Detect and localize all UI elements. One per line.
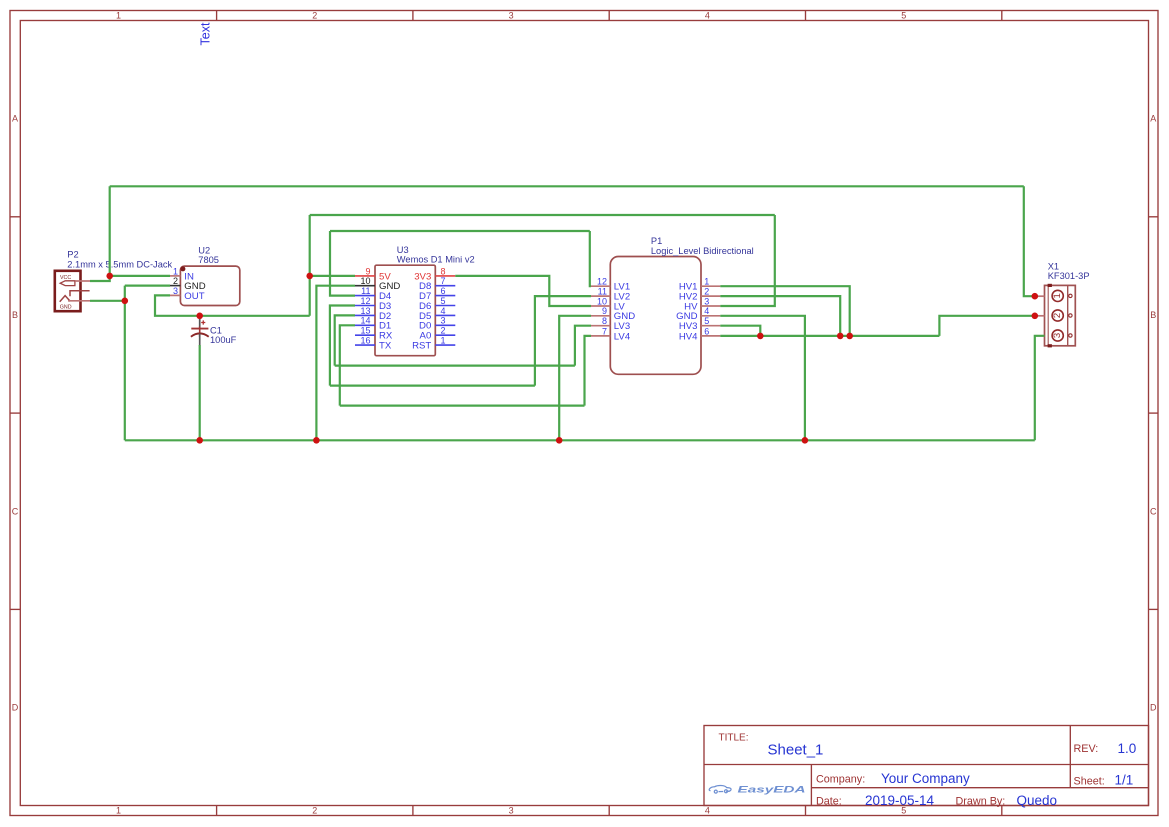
svg-text:D: D xyxy=(12,703,19,713)
wire LV3 riser xyxy=(575,326,591,366)
wire D2-LV3 cross run xyxy=(335,365,575,367)
svg-text:11: 11 xyxy=(361,286,370,296)
wire rail3 xyxy=(330,230,590,232)
P1 pin 1 (HV1) stub xyxy=(701,285,720,287)
svg-text:5: 5 xyxy=(704,316,709,326)
svg-text:1/1: 1/1 xyxy=(1115,773,1134,788)
svg-text:8: 8 xyxy=(441,266,446,276)
svg-text:1: 1 xyxy=(441,336,446,346)
capacitor C1 top lead xyxy=(199,317,201,328)
svg-text:1: 1 xyxy=(173,266,178,276)
svg-text:Company:: Company: xyxy=(816,774,865,786)
svg-text:HV4: HV4 xyxy=(679,331,698,342)
wire D1-LV4 cross run xyxy=(340,405,585,407)
C1 top plate xyxy=(191,328,208,330)
svg-text:10: 10 xyxy=(360,276,370,286)
svg-text:TX: TX xyxy=(379,341,392,352)
U2 pin 1 stub xyxy=(170,275,180,277)
svg-text:100uF: 100uF xyxy=(210,335,237,345)
wire P1.HV1 down xyxy=(720,286,849,336)
svg-text:D: D xyxy=(1150,703,1157,713)
EasyEDA logo glyph xyxy=(709,785,731,793)
U3 pin 5 (D6) stub xyxy=(435,305,455,307)
U3 pin 4 (D5) stub xyxy=(435,314,455,316)
svg-text:Drawn By:: Drawn By: xyxy=(956,796,1006,808)
P1 pin 7 (LV4) stub xyxy=(591,335,610,337)
svg-text:1: 1 xyxy=(704,277,709,287)
svg-text:A: A xyxy=(1150,114,1156,124)
svg-text:4: 4 xyxy=(705,806,710,816)
svg-text:2: 2 xyxy=(441,326,446,336)
svg-text:Wemos D1 Mini v2: Wemos D1 Mini v2 xyxy=(397,255,475,265)
wire U3.D1 down xyxy=(340,325,355,405)
terminal X1 body xyxy=(1045,285,1076,345)
svg-text:7805: 7805 xyxy=(198,255,219,265)
svg-text:2: 2 xyxy=(173,276,178,286)
P1 pin 8 (LV3) stub xyxy=(591,325,610,327)
wire U3.3V3 to P1.LV xyxy=(455,276,591,306)
wire HV jog to X1 pin2 xyxy=(939,316,1035,336)
junction P2 GND node xyxy=(122,298,129,305)
U3 pin 3 (D0) stub xyxy=(435,324,455,326)
svg-text:2: 2 xyxy=(312,11,317,21)
ruler tick right C|D xyxy=(1149,608,1159,610)
wire P2.GND to node xyxy=(90,300,125,302)
X1 terminal circle 1 xyxy=(1052,290,1063,301)
ruler tick bottom 5|end xyxy=(1001,806,1003,816)
wire P1.HV2 down xyxy=(720,296,840,336)
C1 bottom lead xyxy=(199,334,201,346)
title block logo/company divider xyxy=(810,765,812,806)
svg-text:6: 6 xyxy=(704,326,709,336)
wire U2.GND run xyxy=(125,285,170,287)
regulator U2 body xyxy=(180,266,239,305)
svg-text:B: B xyxy=(1150,310,1156,320)
X1 pin 2 stub xyxy=(1035,315,1045,317)
svg-text:Date:: Date: xyxy=(816,796,842,808)
junction HV1 tie xyxy=(846,333,853,340)
svg-text:7: 7 xyxy=(602,326,607,336)
svg-text:3: 3 xyxy=(704,296,709,306)
X1 screw circle 1 xyxy=(1069,294,1072,297)
ruler tick top 5|end xyxy=(1001,11,1003,21)
svg-text:9: 9 xyxy=(602,306,607,316)
ruler tick bottom 1|2 xyxy=(216,806,218,816)
U3 pin 14 (D1) stub xyxy=(355,324,375,326)
X1 terminal circle 3 xyxy=(1052,330,1063,341)
U3 pin 13 (D2) stub xyxy=(355,314,375,316)
svg-text:3: 3 xyxy=(509,806,514,816)
wire C1 top connection xyxy=(199,316,201,317)
svg-text:KF301-3P: KF301-3P xyxy=(1048,271,1090,281)
ruler tick top 2|3 xyxy=(412,11,414,21)
svg-text:Text: Text xyxy=(199,22,213,45)
svg-text:9: 9 xyxy=(365,266,370,276)
svg-text:B: B xyxy=(12,310,18,320)
svg-text:2: 2 xyxy=(704,287,709,297)
U3 pin 16 (TX) stub xyxy=(355,344,375,346)
U3 pin 2 (A0) stub xyxy=(435,334,455,336)
P1 pin 9 (GND) stub xyxy=(591,315,610,317)
U3 pin 11 (D4) stub xyxy=(355,295,375,297)
svg-text:1.0: 1.0 xyxy=(1118,741,1137,756)
junction X1 pin1 xyxy=(1032,293,1039,300)
level shifter P1 body xyxy=(610,257,701,375)
U2 pin 3 stub xyxy=(170,294,180,296)
ruler tick top 3|4 xyxy=(608,11,610,21)
junction P1 right GND on bus xyxy=(802,437,809,444)
wire node to U2.IN xyxy=(110,275,170,277)
svg-text:X1: X1 xyxy=(1048,261,1059,271)
svg-text:6: 6 xyxy=(441,286,446,296)
svg-text:1: 1 xyxy=(1052,293,1063,298)
svg-text:TITLE:: TITLE: xyxy=(719,733,749,744)
svg-text:GND: GND xyxy=(60,305,72,311)
svg-text:8: 8 xyxy=(602,316,607,326)
svg-text:11: 11 xyxy=(598,287,607,297)
U3 pin 7 (D8) stub xyxy=(435,285,455,287)
X1 pin 3 stub xyxy=(1035,335,1045,337)
svg-text:P2: P2 xyxy=(67,250,78,260)
svg-text:C1: C1 xyxy=(210,325,222,335)
ruler tick left A|B xyxy=(10,216,20,218)
title block row divider 1 xyxy=(704,764,1149,766)
junction HV3 tie xyxy=(757,333,764,340)
U2 pin 2 stub xyxy=(170,285,180,287)
wire GND riser left xyxy=(124,286,126,441)
junction VIN node xyxy=(106,273,113,280)
wire 5V node to U3.5V xyxy=(310,275,355,277)
ruler tick top 4|5 xyxy=(805,11,807,21)
svg-text:2.1mm x 5.5mm DC-Jack: 2.1mm x 5.5mm DC-Jack xyxy=(67,259,172,269)
wire rail3 drop to P1.LV1 xyxy=(590,231,591,286)
X1 divider line xyxy=(1067,285,1069,345)
U3 pin 15 (RX) stub xyxy=(355,334,375,336)
U3 pin 12 (D3) stub xyxy=(355,305,375,307)
ruler tick right A|B xyxy=(1149,216,1159,218)
svg-text:U2: U2 xyxy=(198,245,210,255)
P2 middle pin bracket xyxy=(70,291,90,296)
svg-text:P1: P1 xyxy=(651,236,662,246)
wire U3.GND run xyxy=(316,286,355,441)
wire rail2 drop to P1.HV xyxy=(720,215,775,306)
U2 pin-1 indicator dot xyxy=(180,266,185,271)
wire bus to X1 pin3 xyxy=(1035,336,1045,441)
ruler tick bottom 2|3 xyxy=(412,806,414,816)
P1 pin 4 (GND) stub xyxy=(701,315,720,317)
svg-text:OUT: OUT xyxy=(184,291,204,302)
U3 pin 8 (3V3) stub xyxy=(435,275,455,277)
svg-text:3: 3 xyxy=(1052,333,1063,338)
svg-text:RST: RST xyxy=(412,341,431,352)
svg-text:EasyEDA: EasyEDA xyxy=(738,785,806,795)
junction U3 GND on bus xyxy=(313,437,320,444)
P1 pin 2 (HV2) stub xyxy=(701,295,720,297)
wire 5V rail2 xyxy=(310,214,775,216)
P1 pin 11 (LV2) stub xyxy=(591,295,610,297)
wire U3.D2 down xyxy=(335,315,355,365)
svg-text:Logic_Level Bidirectional: Logic_Level Bidirectional xyxy=(651,246,754,256)
wire P2.VCC to node xyxy=(90,276,110,281)
P2 pin 3 (GND) stub xyxy=(68,300,90,302)
U3 pin 10 (GND) stub xyxy=(355,285,375,287)
X1 inner left line xyxy=(1047,285,1049,345)
connector P2 body xyxy=(55,271,81,311)
junction C1 top xyxy=(196,313,203,320)
svg-text:3: 3 xyxy=(509,11,514,21)
P2 switch zigzag xyxy=(60,296,71,302)
ruler tick top 1|2 xyxy=(216,11,218,21)
svg-text:LV4: LV4 xyxy=(614,331,631,342)
wire D3-LV2 cross run xyxy=(330,385,535,387)
svg-text:4: 4 xyxy=(704,306,709,316)
C1 internal pin marks xyxy=(199,327,201,338)
wire 5V riser xyxy=(309,215,311,316)
ruler tick right B|C xyxy=(1149,412,1159,414)
wire ground bus xyxy=(125,439,1035,441)
svg-text:VCC: VCC xyxy=(60,275,71,281)
svg-text:C: C xyxy=(12,506,19,516)
svg-text:C: C xyxy=(1150,506,1157,516)
X1 top mounting square xyxy=(1048,284,1052,287)
svg-text:12: 12 xyxy=(360,296,370,306)
C1 plus mark xyxy=(201,320,205,324)
svg-text:2: 2 xyxy=(312,806,317,816)
wire U3.D3 down xyxy=(330,306,355,386)
U3 pin 6 (D7) stub xyxy=(435,295,455,297)
ruler tick bottom 4|5 xyxy=(805,806,807,816)
svg-text:Your Company: Your Company xyxy=(881,771,970,786)
ruler tick bottom 3|4 xyxy=(608,806,610,816)
svg-text:1: 1 xyxy=(116,806,121,816)
MCU U3 body xyxy=(375,265,435,356)
svg-text:15: 15 xyxy=(360,326,370,336)
junction X1 pin2 xyxy=(1032,313,1039,320)
U3 pin 9 (5V) stub xyxy=(355,275,375,277)
P1 pin 12 (LV1) stub xyxy=(591,285,610,287)
wire P1.HV3 down xyxy=(720,326,760,336)
P2 plug-tip arrow symbol xyxy=(60,281,75,286)
svg-text:7: 7 xyxy=(441,276,446,286)
wire VIN top rail xyxy=(110,185,1024,187)
svg-text:3: 3 xyxy=(173,286,178,296)
title block outer rect xyxy=(704,726,1149,806)
svg-text:2: 2 xyxy=(1052,313,1063,318)
svg-text:5: 5 xyxy=(441,296,446,306)
P2 pin 1 (VCC) stub xyxy=(75,280,90,282)
P1 pin 3 (HV) stub xyxy=(701,305,720,307)
wire U2.OUT run xyxy=(155,295,310,315)
svg-text:12: 12 xyxy=(597,277,607,287)
ruler tick left C|D xyxy=(10,608,20,610)
ruler tick left B|C xyxy=(10,412,20,414)
wire HV bus run xyxy=(720,335,939,337)
wire P1.GND right to bus xyxy=(720,316,805,441)
svg-text:5: 5 xyxy=(901,11,906,21)
wire top rail drop to X1 xyxy=(1024,186,1035,296)
svg-text:A: A xyxy=(12,114,18,124)
svg-text:4: 4 xyxy=(705,11,710,21)
X1 bottom mounting square xyxy=(1048,344,1052,347)
P1 pin 6 (HV4) stub xyxy=(701,335,720,337)
title block rev column divider xyxy=(1069,726,1071,788)
svg-text:Quedo: Quedo xyxy=(1017,793,1058,808)
svg-text:3: 3 xyxy=(441,316,446,326)
title block row divider 2 xyxy=(811,787,1148,789)
wire VIN riser xyxy=(109,186,111,276)
svg-text:10: 10 xyxy=(597,296,607,306)
P1 pin 10 (LV) stub xyxy=(591,305,610,307)
svg-text:2019-05-14: 2019-05-14 xyxy=(865,793,935,808)
svg-text:Sheet_1: Sheet_1 xyxy=(768,742,824,759)
wire LV4 riser xyxy=(585,336,592,406)
wire C1 bottom to bus xyxy=(199,345,201,440)
svg-text:13: 13 xyxy=(360,306,370,316)
X1 terminal circle 2 xyxy=(1052,310,1063,321)
svg-text:REV:: REV: xyxy=(1074,743,1099,755)
junction C1 bottom xyxy=(196,437,203,444)
svg-text:Sheet:: Sheet: xyxy=(1074,776,1105,788)
C1 curved plate xyxy=(191,333,209,336)
svg-text:4: 4 xyxy=(441,306,446,316)
wire U3.D4 to rail3 xyxy=(330,231,355,296)
U3 pin 1 (RST) stub xyxy=(435,344,455,346)
junction HV2 tie xyxy=(837,333,844,340)
svg-text:U3: U3 xyxy=(397,245,409,255)
wire LV2 riser xyxy=(535,296,591,386)
X1 screw circle 2 xyxy=(1069,314,1072,317)
X1 screw circle 3 xyxy=(1069,334,1072,337)
X1 pin 1 stub xyxy=(1035,295,1045,297)
wire P1.GND left to bus xyxy=(559,316,591,441)
svg-text:16: 16 xyxy=(360,336,370,346)
junction 5V node xyxy=(306,273,313,280)
P1 pin 5 (HV3) stub xyxy=(701,325,720,327)
svg-text:1: 1 xyxy=(116,11,121,21)
junction P1 left GND on bus xyxy=(556,437,563,444)
svg-text:14: 14 xyxy=(360,316,370,326)
